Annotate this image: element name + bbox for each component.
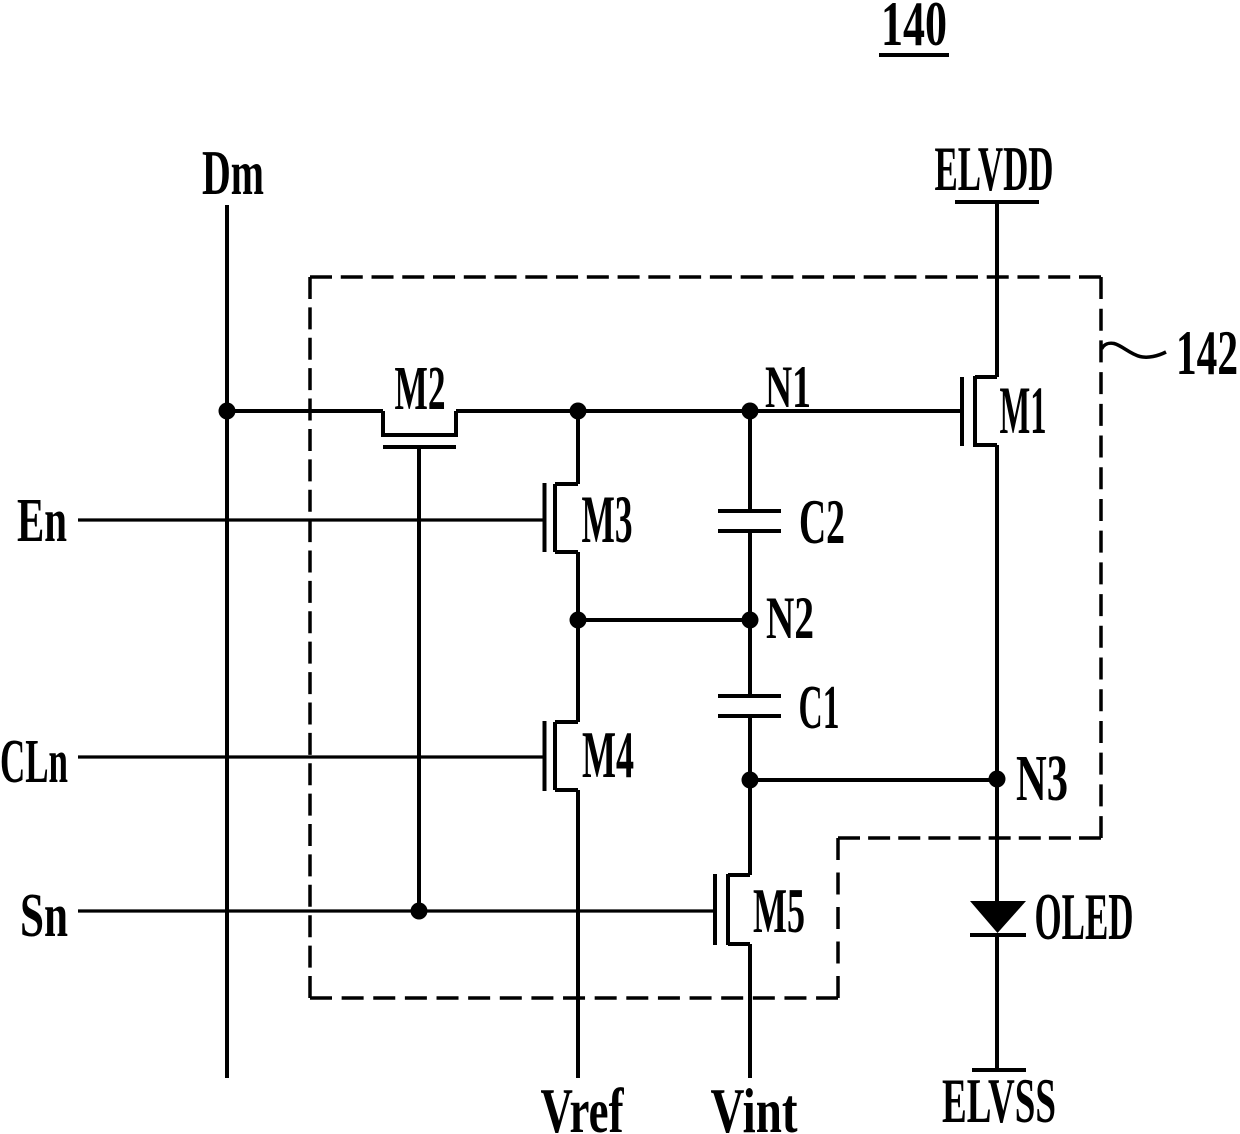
junction dot C1/N3 row [742, 772, 759, 789]
transistor M5 [715, 874, 750, 945]
svg-text:Vref: Vref [541, 1075, 624, 1134]
diode OLED [970, 901, 1026, 935]
wire M2 gate lead down to Sn [417, 447, 421, 911]
svg-text:CLn: CLn [0, 728, 68, 796]
wire M5 source down to Vint [748, 944, 752, 1078]
svg-text:OLED: OLED [1035, 880, 1134, 954]
svg-text:En: En [17, 487, 67, 555]
junction dot Vref-bus/N1 [570, 403, 587, 420]
svg-text:Dm: Dm [202, 137, 264, 208]
wire Sn line to M5 gate [78, 909, 715, 912]
svg-text:Vint: Vint [711, 1075, 799, 1134]
svg-text:Sn: Sn [20, 882, 68, 950]
figure label 140 [879, 0, 949, 59]
svg-text:M2: M2 [395, 355, 446, 423]
wire N1 row: M2 to M1 gate [456, 409, 960, 413]
wire N3 row [750, 778, 997, 782]
wire Vref bus M3 to M4 [576, 552, 580, 722]
junction dot Dm/N1 [219, 403, 236, 420]
wire M1 source down to N3 [995, 445, 999, 779]
junction dot Vref-bus/N2 [570, 612, 587, 629]
wire Dm data line [225, 205, 229, 1078]
svg-text:N3: N3 [1016, 742, 1068, 815]
wire Vref bus top segment [576, 411, 580, 484]
svg-text:M5: M5 [753, 875, 805, 946]
wire N2 row [578, 618, 750, 622]
capacitor C1 [718, 620, 781, 780]
node N1 junction dot [742, 403, 759, 420]
svg-text:M4: M4 [582, 718, 634, 792]
power ELVDD rail bar [955, 200, 1039, 204]
wire OLED cathode to ELVSS [995, 933, 999, 1069]
svg-text:140: 140 [881, 0, 947, 59]
transistor M2 [383, 411, 456, 447]
dashed pixel boundary box 142 [310, 277, 1101, 998]
svg-text:ELVSS: ELVSS [942, 1066, 1056, 1134]
wire N1 row: Dm to M2 [227, 409, 383, 413]
transistor M3 [545, 483, 579, 552]
node N2 junction dot [742, 612, 759, 629]
junction dot Sn/M2 gate [411, 903, 428, 920]
svg-text:ELVDD: ELVDD [935, 133, 1054, 204]
svg-text:C1: C1 [799, 674, 840, 742]
svg-text:M1: M1 [1000, 372, 1047, 448]
wire C-bus down to M5 drain [748, 780, 752, 875]
wire N3 to OLED anode [995, 779, 999, 901]
node N3 junction dot [989, 771, 1006, 788]
svg-text:N2: N2 [766, 585, 814, 651]
svg-text:N1: N1 [765, 354, 811, 420]
wire CLn line to M4 gate [78, 755, 545, 758]
svg-text:C2: C2 [799, 486, 845, 557]
leader squiggle to 142 [1102, 343, 1167, 357]
wire Vref bus M4 down to bottom [576, 790, 580, 1078]
svg-text:142: 142 [1176, 317, 1238, 388]
transistor M1 [962, 376, 997, 447]
wire En line to M3 gate [78, 518, 545, 521]
power ELVSS rail bar [972, 1068, 1026, 1072]
wire ELVDD to M1 drain [995, 202, 999, 377]
capacitor C2 [718, 411, 781, 620]
transistor M4 [545, 721, 579, 791]
svg-text:M3: M3 [582, 481, 633, 557]
